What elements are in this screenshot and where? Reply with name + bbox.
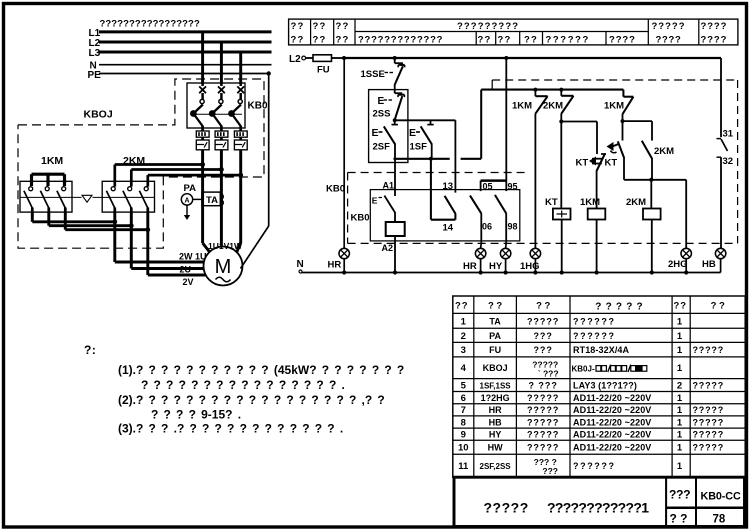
contact KB0 05-06 (470, 181, 506, 243)
contact 2KM aux (NO) (561, 90, 573, 122)
node L2 (phase rail) (89, 38, 272, 49)
junction 1SF output (429, 157, 433, 161)
svg-text:????9-15?.: ????9-15?. (151, 408, 241, 422)
svg-text:KB0-CC: KB0-CC (701, 491, 741, 503)
wire A1 to coil (394, 159, 396, 196)
node N (control neutral) (297, 259, 721, 273)
svg-text:AD11-22/20 ~220V: AD11-22/20 ~220V (573, 430, 651, 440)
svg-text:??: ?? (313, 34, 327, 45)
svg-text:????: ???? (701, 34, 728, 45)
wire phase 2 to motor (220, 150, 223, 248)
svg-text:(2).??????????????????,??: (2).??????????????????,?? (118, 393, 390, 407)
svg-text:9: 9 (461, 430, 466, 441)
svg-text:3: 3 (461, 345, 466, 356)
svg-text:? ???: ? ??? (528, 380, 558, 390)
svg-text:?????: ????? (527, 443, 560, 453)
svg-text:2HG: 2HG (668, 259, 688, 270)
svg-text:95: 95 (508, 181, 518, 191)
svg-text:HY: HY (489, 261, 503, 272)
junction bus / 1KM aux (533, 88, 537, 92)
svg-text:?????????????: ????????????? (358, 34, 443, 45)
svg-text:?????: ????? (527, 316, 560, 326)
svg-text:HB: HB (489, 417, 502, 427)
wire phase 1 to motor (201, 150, 204, 243)
svg-text:A2: A2 (382, 243, 394, 253)
wire node to 2HG lamp (651, 180, 686, 249)
svg-text:HY: HY (489, 430, 502, 440)
svg-text:1SSE: 1SSE (361, 69, 385, 80)
wire 2KM pole 3 to motor winding 2 (148, 212, 206, 275)
svg-text:AD11-22/20 ~220V: AD11-22/20 ~220V (573, 393, 651, 403)
svg-text:?????: ????? (527, 430, 560, 440)
svg-text:1SF,1SS: 1SF,1SS (480, 381, 512, 390)
svg-text:???: ??? (669, 488, 690, 502)
wire KB0 aux feed (505, 58, 507, 181)
coil KT (553, 122, 571, 273)
svg-text:13: 13 (443, 181, 454, 192)
svg-text:??????: ?????? (573, 316, 616, 326)
svg-text:??????: ?????? (573, 461, 616, 471)
contactor 2KM pole 1 (106, 187, 115, 212)
enclosure relay logic (dashed) (492, 80, 737, 243)
junction on N wire (650, 270, 654, 274)
svg-text:06: 06 (482, 221, 492, 231)
wire phase 3 to motor (239, 150, 242, 243)
svg-text:??: ?? (524, 34, 538, 45)
lamp 2HG (681, 248, 691, 272)
svg-text:05: 05 (483, 181, 493, 191)
svg-text:2: 2 (677, 380, 682, 391)
svg-text:??: ?? (478, 34, 492, 45)
svg-text:PA: PA (489, 331, 501, 341)
svg-text:11: 11 (458, 461, 469, 472)
svg-text:10: 10 (458, 443, 469, 454)
svg-text:? ?: ? ? (536, 301, 550, 312)
junction on N wire (393, 270, 397, 274)
svg-text:KT: KT (576, 158, 589, 169)
coil 1KM (588, 209, 606, 273)
junction 2KM coil node (649, 178, 653, 182)
junction 2KM aux output (559, 120, 563, 124)
wire 1KM aux to 2KM NC (623, 120, 653, 122)
contactor 2KM pole 2 (123, 187, 132, 212)
wire riser to relay bus (480, 90, 482, 159)
lamp HR (left) (339, 248, 349, 272)
svg-text:KB0: KB0 (351, 213, 370, 224)
wire right branch with terminals 31 32 (717, 58, 728, 248)
svg-text:1: 1 (677, 405, 683, 416)
svg-text:???: ??? (533, 345, 553, 355)
wire to KT contact branch (561, 122, 597, 155)
svg-text:FU: FU (317, 65, 330, 76)
fuse FU (306, 55, 344, 76)
svg-text:2KM: 2KM (123, 155, 145, 167)
svg-text:1?2HG: 1?2HG (481, 393, 510, 403)
wire tap phase 2 to contactor 2KM (131, 167, 224, 187)
lamp HR (KB0) (475, 243, 485, 273)
breaker pole 3 (228, 83, 244, 131)
contact 1KM aux (NO) to 1HG (535, 90, 547, 249)
svg-text:? ?: ? ? (711, 301, 725, 312)
svg-text:HR: HR (489, 405, 502, 415)
svg-text:5: 5 (461, 380, 467, 391)
svg-text:?:: ?: (84, 343, 96, 357)
svg-text:1: 1 (677, 316, 683, 327)
wire L3 drop to breaker (239, 52, 242, 84)
mechanical linkage line with delta symbol (20, 195, 155, 202)
svg-text:?????: ????? (693, 443, 725, 453)
svg-text:A1: A1 (383, 180, 395, 190)
motor M (204, 247, 243, 286)
svg-text:2: 2 (461, 331, 466, 342)
wire L2 drop to breaker (220, 42, 223, 84)
svg-text:14: 14 (443, 223, 454, 234)
lamp 1HG (530, 248, 540, 272)
svg-text:A: A (184, 198, 189, 205)
svg-text:????: ???? (656, 34, 682, 45)
wire 1KM pole 1 to 2KM pole 1 (32, 212, 117, 224)
svg-text:AD11-22/20 ~220V: AD11-22/20 ~220V (573, 417, 651, 427)
svg-text:????: ???? (609, 34, 636, 45)
junction bus / 2KM aux (559, 88, 563, 92)
svg-text:1: 1 (677, 443, 683, 454)
overload element pole 2 (215, 131, 228, 150)
svg-text:?????????: ????????? (457, 21, 519, 32)
svg-text:2W 1U: 2W 1U (179, 252, 207, 262)
svg-text:?????????????????: ????????????????? (100, 19, 200, 30)
svg-text:KT: KT (545, 197, 558, 208)
wire 2KM pole 2 to motor winding 2 (131, 212, 203, 269)
notes text (84, 343, 409, 436)
label 1SSE (361, 69, 394, 80)
svg-text:????????????1: ????????????1 (547, 500, 649, 516)
pushbutton 2SS (NC) (395, 90, 405, 120)
svg-text:?????: ????? (693, 430, 725, 440)
contactor 2KM pole 3 (139, 187, 148, 212)
enclosure KBOJ (dashed outline) (18, 79, 264, 248)
svg-text:1HG: 1HG (520, 261, 540, 272)
wire 1KM pole 2 to 2KM pole 2 (49, 212, 134, 228)
contact KB0 95-98 (495, 181, 506, 243)
svg-text:???: ??? (533, 331, 553, 341)
junction on N wire (560, 270, 564, 274)
pushbutton 1SF (NO start) (421, 120, 434, 159)
relay KB0 contact box (370, 190, 520, 241)
breaker trip linkage (192, 113, 242, 115)
svg-text:????: ???? (701, 21, 728, 32)
overload element pole 3 (234, 131, 247, 150)
svg-text:??: ?? (336, 34, 350, 45)
junction top rail / KB0 aux feed (504, 56, 508, 60)
svg-text:7: 7 (461, 405, 466, 416)
star bridge bar of 1KM (32, 174, 65, 186)
svg-text:?????: ????? (693, 380, 725, 390)
svg-text:1SF: 1SF (410, 142, 428, 153)
contact KT delayed (to 1KM coil) (589, 154, 606, 209)
svg-text:1KM: 1KM (512, 101, 532, 112)
svg-text:?????: ????? (595, 302, 647, 313)
svg-text:KB0: KB0 (248, 101, 268, 112)
contactor 2KM (box) (102, 181, 154, 212)
svg-text:KB0J-: KB0J- (572, 364, 595, 373)
svg-text:2V: 2V (183, 277, 194, 287)
svg-text:PE: PE (88, 70, 102, 81)
label E- 1SF (409, 127, 427, 153)
svg-text:N: N (297, 259, 304, 270)
junction on N wire (595, 270, 599, 274)
current transformer TA (202, 192, 223, 206)
svg-text:??: ?? (313, 21, 327, 32)
svg-text:??: ?? (336, 21, 350, 32)
svg-text:1: 1 (677, 430, 683, 441)
svg-text:1: 1 (677, 345, 683, 356)
junction on N wire (342, 270, 346, 274)
svg-text:1: 1 (677, 461, 683, 472)
svg-text:32: 32 (723, 156, 734, 167)
svg-text:2KM: 2KM (543, 101, 563, 112)
svg-text:31: 31 (723, 129, 734, 140)
junction top rail / 1SSE branch (393, 56, 397, 60)
overload element pole 1 (196, 131, 209, 150)
wire control top rail (344, 57, 721, 59)
coil KB0 (386, 212, 405, 273)
svg-text:?????: ????? (693, 345, 725, 355)
wire start-button output rail (394, 158, 482, 160)
svg-text:E: E (378, 96, 385, 107)
svg-text:1KM: 1KM (41, 155, 63, 167)
svg-text:1: 1 (461, 316, 467, 327)
contactor 1KM pole 3 (57, 187, 66, 212)
wire L1 drop to breaker (201, 32, 204, 84)
svg-text:M: M (215, 256, 232, 278)
lamp HB (715, 248, 725, 272)
svg-text:???: ??? (542, 466, 558, 476)
svg-text:HR: HR (328, 260, 342, 271)
svg-text:??: ?? (674, 301, 688, 312)
svg-text:KBOJ: KBOJ (483, 363, 508, 373)
svg-text:??: ?? (498, 34, 512, 45)
svg-text:TA: TA (206, 195, 218, 206)
svg-text:TA: TA (489, 316, 501, 326)
junction on N wire (533, 270, 537, 274)
wire HR1 branch (343, 58, 345, 248)
wire 2SS output to 13 contact (395, 119, 456, 121)
svg-text:KBOJ: KBOJ (84, 109, 113, 121)
svg-text:????????????????.: ????????????????. (141, 378, 345, 392)
svg-text:1: 1 (677, 393, 683, 404)
svg-text:1: 1 (677, 363, 683, 374)
circuit breaker KB0 (box) (187, 83, 245, 128)
svg-text:??: ?? (291, 21, 305, 32)
label E- 2SF (372, 127, 391, 153)
svg-text:2SS: 2SS (373, 109, 391, 120)
svg-text:E: E (372, 127, 379, 139)
svg-text:8: 8 (461, 417, 466, 428)
svg-text:1KM: 1KM (604, 101, 624, 112)
contactor 1KM pole 2 (40, 187, 49, 212)
svg-text:1KM: 1KM (580, 197, 600, 208)
contact KB0 13-14 (NO self-hold) (431, 120, 456, 219)
svg-text:4: 4 (461, 363, 467, 374)
svg-text:6: 6 (461, 393, 466, 404)
svg-text:78: 78 (713, 514, 726, 526)
svg-text:? ?: ? ? (488, 301, 502, 312)
svg-text:?????: ????? (652, 21, 686, 32)
svg-text:L2: L2 (289, 54, 301, 65)
svg-text:2SF: 2SF (373, 142, 391, 153)
svg-text:?????: ????? (527, 417, 560, 427)
component list table (453, 296, 745, 477)
svg-text:1: 1 (677, 331, 683, 342)
contact 2KM (NC interlock) (642, 121, 652, 180)
lamp HY (500, 243, 510, 273)
svg-text:E: E (372, 196, 378, 206)
wire relay bus (481, 89, 623, 91)
node L3 (phase rail) (89, 48, 272, 59)
node L2 control feed terminal (289, 54, 306, 65)
svg-text:2KM: 2KM (654, 146, 674, 157)
contact KB0 trip (E) (372, 196, 395, 213)
contact KT delayed (to 2KM coil) (607, 121, 652, 180)
node N (neutral rail) (90, 61, 272, 72)
svg-text:?????: ????? (484, 500, 529, 516)
breaker pole 2 (209, 83, 225, 131)
svg-text:2U: 2U (180, 265, 192, 275)
wire tap phase 3 to contactor 2KM (148, 173, 243, 187)
svg-text:` ???: ` ??? (538, 368, 559, 378)
node PE (earth rail) (88, 70, 271, 81)
node L1 (phase rail) (89, 28, 272, 39)
label E-- 2SS (373, 96, 393, 120)
svg-text:KB0: KB0 (326, 184, 345, 195)
svg-text:? ?: ? ? (670, 512, 688, 526)
contactor 1KM (box) (20, 181, 72, 212)
svg-text:2KM: 2KM (626, 197, 646, 208)
svg-text:HB: HB (702, 259, 716, 270)
svg-text:?????: ????? (693, 405, 725, 415)
junction top rail / HR branch (342, 56, 346, 60)
svg-text:E: E (409, 127, 416, 139)
breaker pole 1 (190, 83, 206, 131)
coil 2KM (643, 180, 661, 273)
junction 2SS output (393, 118, 397, 122)
svg-text:KT: KT (605, 158, 618, 169)
svg-text:AD11-22/20 ~220V: AD11-22/20 ~220V (573, 405, 651, 415)
wire 1KM pole 3 to 2KM pole 3 (65, 212, 150, 232)
junction on N wire (479, 270, 483, 274)
svg-text:?????: ????? (693, 417, 725, 427)
ammeter PA (181, 183, 202, 220)
wire 2KM pole 1 to motor winding 2 (115, 212, 204, 262)
enclosure KB0 relay (dashed) (348, 173, 738, 244)
svg-text:?????: ????? (527, 393, 560, 403)
svg-text:??????: ?????? (546, 34, 590, 45)
svg-text:HR: HR (463, 261, 477, 272)
svg-text:??????: ?????? (573, 331, 616, 341)
svg-text:?????: ????? (527, 405, 560, 415)
svg-text:PA: PA (184, 183, 197, 194)
svg-text:1U1V1W: 1U1V1W (208, 241, 243, 251)
svg-text:HW: HW (488, 443, 503, 453)
svg-text:AD11-22/20 ~220V: AD11-22/20 ~220V (573, 443, 651, 453)
svg-text:??: ?? (455, 301, 469, 312)
svg-text:LAY3 (1??1??): LAY3 (1??1??) (573, 380, 637, 390)
svg-text:RT18-32X/4A: RT18-32X/4A (573, 345, 630, 355)
svg-text:FU: FU (489, 345, 501, 355)
svg-text:98: 98 (508, 221, 518, 231)
title block (454, 477, 745, 526)
svg-text:(3).???.?????????????.: (3).???.?????????????. (118, 422, 343, 436)
top title table (289, 19, 738, 45)
pushbutton 2SF (NO start) (384, 120, 398, 159)
junction on N wire (504, 270, 508, 274)
junction 1KM aux output (621, 119, 625, 123)
pushbutton 1SSE (NC) (395, 58, 405, 90)
contactor 1KM pole 1 (24, 187, 33, 212)
wire tap phase 1 to contactor 2KM (115, 162, 205, 187)
svg-text:??: ?? (291, 34, 305, 45)
button box 2SS/2SF (369, 90, 408, 163)
junction on N wire (684, 270, 688, 274)
contact 1KM aux (NO, bus end) (623, 90, 634, 122)
svg-text:(1).???????????(45kW????????: (1).???????????(45kW???????? (118, 363, 409, 377)
svg-text:2SF,2SS: 2SF,2SS (480, 462, 512, 471)
svg-text:L3: L3 (89, 48, 101, 59)
svg-text:1: 1 (677, 417, 683, 428)
wire PE to motor frame (241, 74, 269, 269)
